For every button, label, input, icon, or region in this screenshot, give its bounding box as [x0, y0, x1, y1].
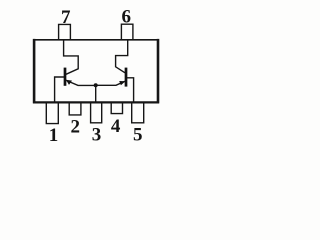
wire: Q2 collector to pin 6	[116, 40, 128, 73]
Q2 emitter arrowhead (PNP, points into base bar)	[119, 81, 125, 85]
wire: Q1 emitter to common node	[66, 80, 96, 85]
wire: Q2 base to pin 5	[127, 78, 134, 103]
pin 6 lead tab	[121, 24, 132, 39]
svg-text:7: 7	[61, 7, 71, 28]
svg-text:5: 5	[133, 124, 143, 145]
transistor Q2 base bar	[125, 68, 128, 87]
pin 4 lead tab	[111, 103, 122, 114]
svg-text:4: 4	[111, 116, 121, 137]
wire: Q1 collector to pin 7	[64, 40, 79, 75]
wire: Q1 base to pin 1	[55, 77, 64, 102]
svg-text:2: 2	[71, 116, 81, 137]
pin 1 lead tab	[46, 103, 58, 124]
pin 2 lead tab	[69, 103, 81, 115]
wire: common node to Q2 emitter	[96, 81, 125, 85]
svg-text:6: 6	[122, 7, 132, 28]
transistor Q1 base bar	[64, 68, 67, 86]
wire: node down to pin 3	[95, 85, 97, 102]
svg-text:1: 1	[49, 125, 59, 146]
pin 3 lead tab	[91, 103, 102, 123]
pin 7 lead tab	[59, 24, 71, 39]
pin 5 lead tab	[132, 103, 144, 123]
svg-text:3: 3	[92, 125, 102, 146]
junction node (common emitters)	[94, 83, 98, 87]
IC package body outline	[33, 39, 159, 104]
Q1 emitter arrowhead (PNP, points into base bar)	[66, 80, 72, 85]
